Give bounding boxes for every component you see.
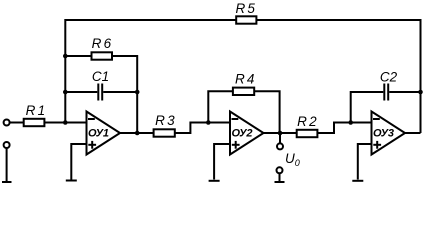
node OU3 inverting input — [348, 120, 353, 125]
resistor R4 — [233, 72, 257, 95]
op-amp OU2 — [230, 112, 264, 155]
wire C2 feedback right leg — [389, 91, 420, 93]
node OU1 input — [63, 120, 68, 125]
wire R4 feedback loop — [208, 91, 279, 133]
node C1 right — [135, 90, 140, 95]
wire OU3 noninverting input — [358, 144, 372, 180]
svg-text:ОУ3: ОУ3 — [373, 127, 394, 139]
capacitor C1 — [92, 69, 109, 101]
svg-text:R2: R2 — [297, 114, 319, 129]
svg-text:ОУ1: ОУ1 — [88, 127, 109, 139]
node OU2 inverting input — [206, 120, 211, 125]
wire OU1 noninverting input — [71, 144, 86, 180]
resistor R6 — [92, 36, 114, 60]
wire OU3 output — [405, 132, 421, 134]
wire OU2 noninverting input — [214, 144, 230, 180]
wire C2 feedback left leg — [351, 92, 384, 123]
wire R6 branch — [65, 56, 137, 133]
input terminal bottom — [2, 142, 12, 182]
node R6 left — [63, 54, 68, 59]
ground OU1 — [66, 180, 77, 182]
svg-text:R4: R4 — [235, 72, 257, 87]
node C1 left — [63, 90, 68, 95]
svg-text:R5: R5 — [235, 1, 257, 16]
resistor R1 — [24, 103, 48, 126]
svg-text:R1: R1 — [26, 103, 48, 118]
node OU2 output — [278, 131, 283, 136]
wire C1 branch right — [103, 91, 137, 93]
wire R3 to OU2 inverting input — [175, 123, 230, 134]
op-amp OU3 — [372, 112, 406, 155]
wire OU1 output to R3 — [120, 132, 154, 134]
svg-text:R6: R6 — [92, 36, 114, 51]
wire OU2 output to R2 — [264, 132, 297, 134]
input terminal top — [4, 120, 10, 126]
resistor R5 — [235, 1, 257, 24]
node OU1 output — [135, 131, 140, 136]
output terminal U0 bottom — [275, 167, 285, 182]
wire top feedback rail — [65, 20, 420, 133]
wire input to R1 — [10, 122, 24, 124]
output terminal U0 top — [277, 143, 283, 149]
ground OU3 — [352, 180, 363, 182]
svg-text:C2: C2 — [380, 70, 398, 85]
resistor R2 — [297, 114, 319, 137]
ground OU2 — [209, 180, 220, 182]
svg-text:R3: R3 — [155, 113, 177, 128]
capacitor C2 — [380, 70, 398, 101]
op-amp OU1 — [87, 112, 121, 155]
wire R1 to OU1 inverting input — [44, 122, 86, 124]
wire U0 stub — [279, 133, 281, 143]
node C2 right — [418, 90, 423, 95]
svg-text:U0: U0 — [285, 151, 300, 168]
svg-text:ОУ2: ОУ2 — [232, 127, 253, 139]
wire C1 branch left — [65, 91, 97, 93]
resistor R3 — [154, 113, 177, 137]
wire R2 to OU3 inverting input — [317, 123, 371, 134]
svg-text:C1: C1 — [92, 69, 109, 84]
